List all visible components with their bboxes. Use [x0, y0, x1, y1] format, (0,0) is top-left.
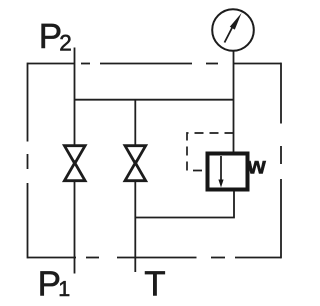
pilot line (dashed) to relief valve: [187, 133, 234, 171]
enclosure bottom edge: [28, 257, 282, 259]
svg-text:T: T: [144, 264, 165, 303]
wire P2/P1 line lower (valve V1 bottom down to P1): [74, 181, 76, 274]
wire P2 line upper (P2 down to valve V1 top): [74, 48, 76, 147]
wire relief valve return (down then left to T line): [135, 191, 234, 218]
relief valve U1 flow arrow: [218, 156, 223, 188]
wire T line lower (valve V2 bottom down to T): [134, 181, 136, 273]
wire gauge stem (gauge down to relief valve top): [233, 51, 235, 154]
enclosure (manifold housing, dashed box) top edge: [28, 63, 282, 65]
pressure gauge G1 needle: [225, 13, 242, 43]
wire branch to valve V2 (upper): [134, 100, 136, 146]
enclosure right edge: [280, 63, 282, 259]
node P1 (port label): [38, 264, 71, 303]
svg-text:2: 2: [59, 31, 72, 56]
relief valve U1 body (square): [208, 154, 248, 190]
node P2 (port label): [39, 17, 72, 56]
node T (port label): [144, 264, 165, 303]
svg-text:1: 1: [58, 277, 70, 301]
wire manifold header (horizontal): [75, 99, 234, 101]
enclosure left edge: [27, 63, 29, 259]
pressure gauge G1 (circle): [212, 9, 254, 51]
shut-off valve V1 (two triangles): [64, 146, 85, 181]
svg-text:w: w: [247, 153, 267, 179]
shut-off valve V2 (two triangles): [125, 146, 146, 181]
